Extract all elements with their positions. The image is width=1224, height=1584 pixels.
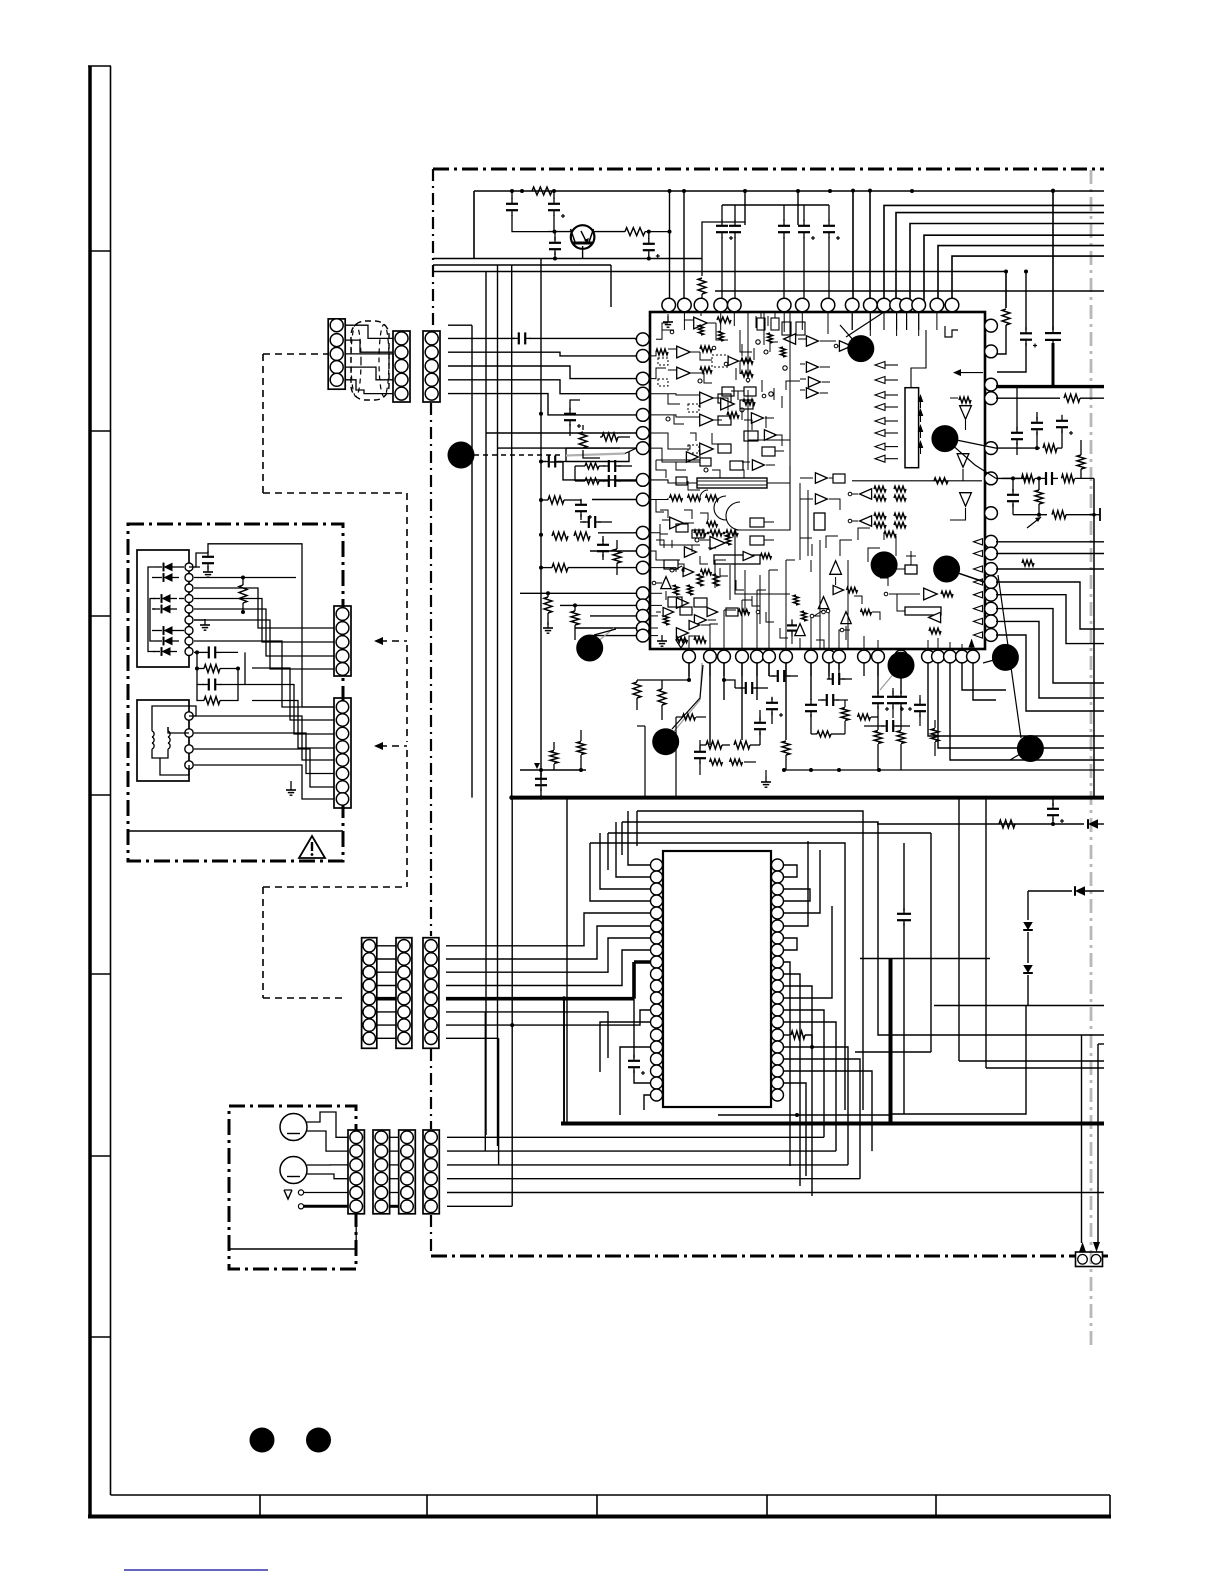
IC1 left pin 1	[636, 333, 649, 346]
IC2 res R201	[783, 1034, 790, 1036]
IC1 int sw dots	[769, 392, 773, 396]
IC1 int amp A1	[694, 317, 708, 329]
coil L301	[152, 731, 154, 737]
feed verticals mid	[575, 798, 637, 811]
bus junction x798	[796, 189, 800, 193]
thick bus y1000 junction	[562, 996, 567, 1001]
IC1 int y misc dots	[670, 330, 674, 334]
IC2 right pin 10	[772, 968, 784, 980]
IC1 int amp A10	[806, 336, 818, 346]
footer top rule	[111, 1494, 1111, 1496]
IC1 left pin 5	[636, 409, 649, 422]
IC1 int res v mid	[697, 574, 703, 586]
IC1 int pin wires top right	[851, 312, 853, 330]
wire y1068	[986, 1067, 1104, 1069]
CN203 wire r4	[446, 950, 651, 986]
long vertical x511	[511, 265, 513, 798]
below cap extra1	[694, 751, 706, 753]
below gnd extra	[765, 776, 767, 782]
key block pad 3	[185, 584, 193, 592]
resistor R112	[571, 611, 579, 625]
verticals right of IC2	[903, 843, 905, 911]
IC1 right pin 12	[985, 588, 998, 601]
CN402-CN403 link 2	[390, 1150, 399, 1152]
Q101 emitter wire	[582, 246, 584, 259]
resistor R114	[658, 689, 666, 705]
IC1 int amp A9	[784, 334, 796, 344]
IC2 left pin 8	[651, 944, 663, 956]
resistor R117	[817, 731, 831, 737]
wire CN103 row4	[448, 380, 636, 394]
bus junction x512	[510, 189, 514, 193]
switch contacts	[298, 1190, 303, 1195]
IC1 int amp A17	[694, 615, 706, 625]
IC2 left pin 15	[651, 1029, 663, 1041]
junction y798	[539, 795, 543, 799]
IC1 int staircase ctr	[733, 325, 735, 327]
wire y1006	[934, 1005, 1104, 1007]
resistor R111	[544, 597, 552, 613]
grey pointer 2	[666, 700, 700, 741]
IC1 left pin 13	[636, 587, 649, 600]
wire x757 stub	[756, 663, 758, 700]
callout pointer 4	[877, 530, 884, 551]
capacitor C120	[754, 722, 766, 724]
wire row 499	[592, 499, 636, 501]
switch block pad 4	[185, 761, 193, 769]
IC1 int y comps3	[793, 595, 798, 605]
bus junction x684	[682, 189, 686, 193]
capacitor C117	[588, 516, 590, 528]
dashed arrow 1	[380, 640, 407, 642]
page number dot right	[306, 1428, 331, 1453]
IC2 left pin 13	[651, 1004, 663, 1016]
long vertical x541	[540, 259, 542, 785]
IC1 top pin 4	[714, 298, 728, 312]
res v 901	[900, 663, 902, 694]
key diode D1	[164, 563, 173, 572]
IC1 int corner sym	[945, 326, 958, 337]
IC1 int small rect mid1	[750, 518, 764, 527]
capacitor C106	[734, 205, 736, 221]
callout pointer 2b	[846, 312, 884, 337]
IC1 int x cb wires	[795, 620, 804, 650]
IC1 int amp A15	[661, 577, 671, 589]
IC1 int mux wires	[747, 312, 749, 383]
capacitor C105 pol	[721, 205, 723, 221]
long vertical x486	[485, 272, 487, 1136]
resistor R104	[1002, 309, 1010, 325]
below stub pins	[688, 663, 690, 676]
long vertical x497	[497, 265, 499, 1146]
IC1 bottom pin 17	[956, 650, 969, 663]
connector CN402	[373, 1130, 390, 1214]
grey pointer 3	[880, 665, 901, 690]
IC1 bottom pin 10	[833, 650, 846, 663]
wire right 542	[996, 541, 1104, 543]
IC1 left pin 17	[636, 629, 649, 642]
IC1 int x cb cluster	[795, 624, 805, 636]
IC1 right pin 11	[985, 576, 998, 589]
microphone M1	[280, 1114, 307, 1141]
res v x786	[782, 741, 790, 755]
IC2 bottom wire	[663, 1107, 760, 1115]
footer bottom rule	[88, 1515, 1111, 1519]
vert x1026 low	[1025, 1006, 1027, 1115]
key gnd 2	[204, 619, 206, 625]
CN201-CN202 link 6	[377, 1011, 396, 1013]
IC1 left pin 7	[636, 442, 649, 455]
wire right 454	[996, 477, 1030, 479]
IC1 right pin 5	[985, 442, 998, 455]
wire right 569	[996, 568, 1104, 570]
CN402-CN403 link 1	[390, 1136, 399, 1138]
page border tick 3	[90, 615, 111, 617]
IC1 bottom pin 18	[967, 650, 980, 663]
fan wire 290	[952, 290, 1104, 292]
right wire y527	[996, 526, 1020, 528]
IC1 int long wire 1	[763, 312, 765, 345]
fan wire 7	[938, 246, 1104, 307]
IC1 int amp A20	[830, 561, 842, 575]
vert x512 bottom	[511, 798, 513, 1207]
key block pad 6	[185, 616, 193, 624]
wire y291 left part	[715, 290, 952, 292]
IC1 int x rect B8	[676, 477, 687, 485]
IC2 surround rect1	[637, 811, 863, 1110]
vert x498 bottom	[498, 1038, 500, 1165]
resistor R109	[613, 549, 621, 563]
IC1 int amp A11	[806, 362, 818, 372]
cap pair x829 839	[828, 663, 830, 672]
CN201-CN202 link 3	[377, 971, 396, 973]
callout dot 6	[576, 635, 603, 662]
IC1 int amp A4	[700, 392, 714, 404]
arrow up conn	[1079, 1242, 1086, 1252]
IC2 left pin 10	[651, 968, 663, 980]
CN404 wire r2	[447, 1150, 836, 1152]
IC1 int wires tl	[656, 323, 668, 339]
wire CN103 row3	[448, 366, 636, 379]
IC1 int vertical risers	[851, 481, 853, 530]
CN402-CN403 link 3	[390, 1164, 399, 1166]
wire row 551	[590, 550, 636, 552]
IC1 left pin 11	[636, 545, 649, 558]
IC1 bottom pin 4	[736, 650, 749, 663]
diode D301	[1088, 819, 1098, 829]
connector CN301	[334, 606, 351, 676]
IC2 left pin 4	[651, 895, 663, 907]
connector CN302	[334, 698, 351, 808]
IC1 int bot right wires	[927, 640, 929, 650]
fan wire 8	[952, 256, 1104, 307]
wire row 628	[575, 627, 636, 629]
thick stub y958	[860, 958, 891, 960]
IC2 right pin 6	[772, 920, 784, 932]
IC1 int res row mid	[670, 495, 683, 501]
IC2 left pin 5	[651, 907, 663, 919]
IC1 int ctr dots	[834, 344, 838, 348]
IC2 right pin 5	[772, 907, 784, 919]
dashed boundary h1	[263, 492, 407, 494]
capacitor C119	[745, 682, 747, 694]
connector CN203	[423, 938, 439, 1049]
wire y824	[877, 823, 1084, 825]
grey pointer 1	[590, 628, 614, 648]
wire x786 x811	[785, 663, 787, 740]
trimmer wire	[1093, 478, 1095, 797]
IC1 left pin 4	[636, 387, 649, 400]
IC1 int tall rect	[905, 388, 919, 468]
IC1 bottom pin 16	[944, 650, 957, 663]
IC1 int divider wire	[735, 466, 790, 594]
wire y1052	[855, 1051, 931, 1053]
CN203 wire r6b	[446, 1012, 608, 1058]
IC1 int y leftwires	[656, 500, 664, 513]
bus junction x912	[910, 189, 914, 193]
IC1 left pin 6	[636, 427, 649, 440]
IC2 right pin 12	[772, 992, 784, 1004]
resistor R105	[579, 432, 587, 448]
resistor R107	[548, 496, 564, 504]
wire x670 to pin	[669, 191, 671, 298]
IC2 left pin 12	[651, 992, 663, 1004]
switch block out wires	[194, 716, 334, 760]
capacitor C113 pol	[569, 404, 571, 410]
wire right pin 325	[996, 308, 1010, 326]
CN201-CN202 link 5	[377, 997, 396, 1001]
IC2 surround rect2	[622, 822, 1104, 1035]
capacitor C103	[549, 242, 561, 244]
CN203 wire r7b	[512, 1010, 651, 1025]
key block pad 7	[185, 627, 193, 635]
wire row 593	[520, 592, 636, 594]
IC2 right pin 16	[772, 1041, 784, 1053]
CN203 wire r7	[446, 1024, 512, 1026]
IC2 left pin 6	[651, 920, 663, 932]
key diode D6	[164, 637, 173, 646]
IC1 top pin 1	[662, 298, 676, 312]
IC1 right pin arrow 6	[974, 605, 983, 611]
IC2 surround rect4	[590, 843, 845, 1110]
IC1 bottom pin 9	[823, 650, 836, 663]
IC2 left pin 3	[651, 883, 663, 895]
CN201-CN202 link 4	[377, 985, 396, 987]
CN203 wire r1	[446, 913, 651, 946]
capacitor C104 pol	[647, 230, 651, 234]
CN201-CN202 link 7	[377, 1024, 396, 1026]
IC1 int wire pin arrow	[953, 372, 997, 374]
IC1 int x amp B5	[684, 547, 696, 557]
gnd sym G1	[547, 622, 549, 628]
key diode D5	[164, 626, 173, 635]
IC1 int x wires mesh	[656, 460, 666, 478]
IC1 top pin 11	[877, 298, 891, 312]
cable crossover wires	[345, 325, 393, 338]
resistor R115	[706, 741, 722, 749]
dashed boundary right v2	[406, 645, 408, 742]
CN404 wire r6	[447, 1205, 512, 1207]
IC1 int x stairs mid	[714, 560, 716, 588]
IC1 int x bl cluster2	[663, 607, 674, 616]
IC1 int res r1	[656, 349, 668, 355]
IC1 left pin 2	[636, 350, 649, 363]
callout dot 4	[871, 551, 898, 578]
CN203 wire r2	[446, 926, 651, 959]
board boundary left dash-dot low	[430, 1049, 432, 1129]
switch block pad 1	[185, 712, 193, 720]
IC1 int arrow col	[875, 362, 885, 369]
key block pad 8	[185, 637, 193, 645]
resistor R108	[552, 532, 568, 540]
key block pad 5	[185, 605, 193, 613]
cap x811	[805, 704, 817, 706]
IC1 int y vdrop2	[807, 490, 809, 556]
res v right 2	[1035, 490, 1043, 504]
Q101 base wire	[548, 231, 571, 233]
IC1 top pin 7	[796, 298, 810, 312]
speaker box inner rule	[229, 1248, 356, 1250]
IC1 int capd 1	[658, 358, 668, 365]
IC1 int x tr wires	[851, 312, 853, 330]
capacitor C115 pair	[585, 478, 599, 484]
IC1 int small arrows right	[918, 394, 924, 402]
IC1 right pin 15	[985, 629, 998, 642]
fan wire 5	[910, 224, 1104, 308]
capacitor C108 pol	[803, 205, 805, 221]
IC1 int amp A13	[670, 517, 684, 529]
key block pad 4	[185, 595, 193, 603]
footer link underline	[124, 1569, 268, 1571]
wire y891	[1028, 890, 1072, 892]
IC1 int x vert rails	[747, 390, 749, 470]
thick vert x890	[889, 959, 893, 1124]
callout pointer 5	[947, 569, 985, 583]
key block pad 2	[185, 574, 193, 582]
right stair extra	[1007, 542, 1009, 640]
wire CN103 row5	[448, 394, 636, 415]
wire CN103 row1	[448, 337, 515, 339]
wire right stair2	[996, 595, 1104, 644]
pin stub x798	[797, 191, 799, 225]
IC1 int y hseg1	[656, 459, 700, 461]
IC1 int bot right cluster	[924, 588, 938, 600]
IC2 right pin 15	[772, 1029, 784, 1041]
cap v right of IC2	[897, 913, 911, 915]
below wire y770b	[784, 769, 1104, 771]
resistor R113	[633, 682, 641, 698]
IC1 int amp A16	[676, 598, 688, 608]
staircase right pins	[996, 542, 1030, 735]
IC1 right pin 2	[985, 345, 998, 358]
IC1 int delay feed	[649, 480, 697, 483]
capacitor C107	[783, 205, 785, 221]
connector CN401 tail	[355, 1214, 357, 1249]
thick bus y798	[512, 796, 1104, 800]
resistor R116	[734, 741, 750, 749]
IC1 top pin 3	[694, 298, 708, 312]
IC1 int mid cluster amps	[833, 585, 844, 594]
below vert extra	[644, 726, 646, 798]
IC1 int ctr amp1	[839, 341, 851, 351]
IC1 left pin 10	[636, 526, 649, 539]
cap v right 1	[1036, 412, 1038, 420]
bus junction x745	[743, 189, 747, 193]
junction 1053	[1052, 191, 1054, 330]
IC2 left pin 9	[651, 956, 663, 968]
IC1 int amp A14	[710, 537, 725, 550]
connector CN103	[423, 331, 440, 402]
IC1 int y top mesh	[755, 316, 757, 328]
below pin wires a	[688, 663, 690, 680]
IC1 bottom pin 11	[858, 650, 871, 663]
capacitor C114 pair	[585, 463, 599, 469]
resistor R301b	[999, 820, 1015, 828]
corner box lines	[1081, 1035, 1083, 1243]
IC1 int small rect row	[722, 387, 734, 396]
connector CN501	[1076, 1252, 1103, 1267]
right extra y385 caps	[1011, 387, 1013, 420]
fan wire 3	[884, 205, 1104, 307]
wire right 478 long	[1002, 477, 1013, 479]
below res extra3	[841, 708, 849, 721]
IC2 body	[663, 851, 771, 1107]
caps at 540-560 below	[540, 770, 542, 776]
wire row 635	[590, 635, 636, 637]
Q101 collector wire	[592, 231, 625, 233]
page border tick 2	[90, 430, 111, 432]
IC1 int amp A7	[700, 443, 714, 455]
IC1 int x amp B2	[808, 377, 820, 387]
IC1 right pin 14	[985, 615, 998, 628]
IC1 bottom pin 8	[805, 650, 818, 663]
board boundary bottom dash-dot right stub	[1103, 1255, 1108, 1258]
wire row 532	[598, 532, 636, 534]
footer divider 1	[259, 1495, 261, 1515]
IC1 top pin 14	[912, 298, 926, 312]
IC2 right pin 8	[772, 944, 784, 956]
IC1 int capd 2	[658, 379, 668, 386]
resistor R102	[625, 228, 645, 236]
IC1 int wires mid	[649, 533, 700, 545]
wire right stair5	[996, 635, 1104, 711]
vert x584 long	[583, 798, 585, 811]
right verts down	[1015, 583, 1017, 733]
IC1 top pin 9	[845, 298, 859, 312]
IC2 right pin 3	[772, 883, 784, 895]
black dot lead 2	[983, 657, 1005, 663]
IC1 bottom pin 1	[683, 650, 696, 663]
CN203 wire r8	[446, 1037, 499, 1039]
verticals 958-986	[958, 798, 960, 1061]
fan bus line 1	[474, 190, 1104, 192]
connector CN201	[362, 938, 377, 1049]
page border tick 7	[90, 1336, 111, 1338]
IC1 int amp A12	[806, 388, 818, 398]
capacitor C109 pol	[828, 205, 830, 221]
bus junction x1053	[1051, 189, 1055, 193]
below cap extra2	[826, 694, 828, 706]
junction dot 797	[795, 1113, 799, 1117]
key resistor R301	[239, 585, 247, 603]
IC2 left pin wires	[628, 811, 651, 865]
IC2 left pin 20	[651, 1089, 663, 1101]
IC1 int rect bl	[668, 597, 682, 607]
IC1 bottom pin 13	[895, 650, 908, 663]
connector CN401	[348, 1130, 364, 1214]
wire jog 1	[563, 462, 636, 480]
CN404 wire r3	[447, 1164, 848, 1166]
